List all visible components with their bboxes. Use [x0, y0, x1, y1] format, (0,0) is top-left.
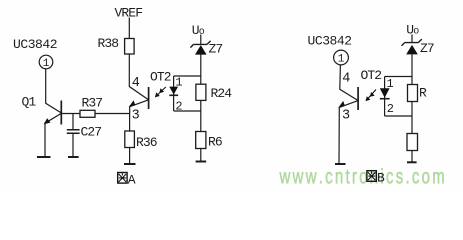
svg-text:B: B — [377, 171, 385, 186]
svg-text:OT2: OT2 — [150, 70, 171, 85]
svg-text:VREF: VREF — [115, 6, 143, 21]
svg-text:1: 1 — [387, 77, 394, 91]
svg-text:U: U — [192, 23, 199, 38]
svg-text:A: A — [128, 173, 136, 188]
svg-text:1: 1 — [175, 76, 182, 90]
svg-text:UC3842: UC3842 — [13, 37, 57, 52]
svg-text:2: 2 — [175, 100, 182, 114]
svg-text:UC3842: UC3842 — [308, 34, 352, 49]
svg-text:OT2: OT2 — [361, 68, 382, 83]
svg-text:R: R — [419, 86, 427, 101]
svg-text:1: 1 — [338, 54, 345, 66]
svg-text:R24: R24 — [211, 86, 233, 101]
svg-text:Z7: Z7 — [420, 41, 434, 56]
svg-text:1: 1 — [43, 58, 50, 70]
svg-text:o: o — [413, 27, 419, 38]
svg-text:3: 3 — [132, 108, 140, 123]
svg-text:U: U — [406, 23, 413, 38]
svg-text:o: o — [199, 27, 205, 38]
svg-text:R38: R38 — [98, 36, 119, 51]
svg-text:2: 2 — [387, 102, 394, 116]
svg-text:R37: R37 — [82, 96, 103, 111]
svg-text:Q1: Q1 — [22, 95, 37, 110]
svg-text:4: 4 — [132, 76, 140, 91]
svg-text:C27: C27 — [81, 125, 102, 140]
svg-text:Z7: Z7 — [209, 42, 223, 57]
svg-text:4: 4 — [342, 72, 350, 87]
svg-text:3: 3 — [342, 108, 350, 123]
svg-text:R6: R6 — [208, 135, 222, 150]
svg-text:R36: R36 — [136, 135, 157, 150]
